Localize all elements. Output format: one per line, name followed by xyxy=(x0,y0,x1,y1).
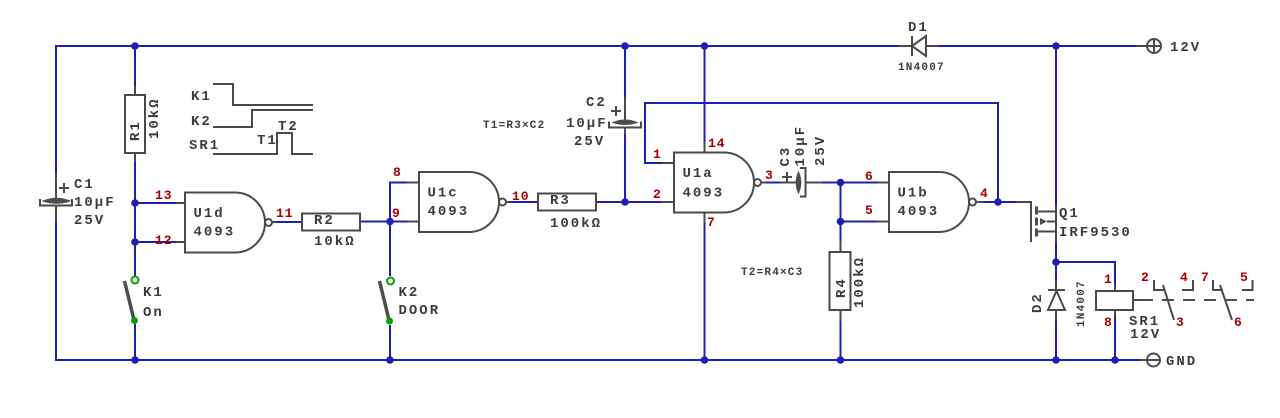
svg-text:100kΩ: 100kΩ xyxy=(550,216,602,232)
relay contact lever 7-6 xyxy=(1220,285,1232,320)
wire K1 bottom to rail xyxy=(134,324,136,360)
resistor R3 xyxy=(538,193,602,232)
transistor Q1 xyxy=(1016,202,1132,243)
power symbol 12V xyxy=(1136,39,1201,56)
wire junction to pin9 xyxy=(390,221,407,223)
svg-text:10kΩ: 10kΩ xyxy=(147,97,163,139)
svg-text:U1b: U1b xyxy=(898,186,929,202)
wire U1c output to R3 xyxy=(507,201,538,203)
svg-text:4093: 4093 xyxy=(683,186,725,202)
svg-text:4093: 4093 xyxy=(194,225,236,241)
svg-text:8: 8 xyxy=(393,165,402,180)
junction bottom rail pin7 xyxy=(701,356,709,364)
svg-text:7: 7 xyxy=(707,215,716,230)
junction top rail R1 xyxy=(131,42,139,50)
op-amp U1d nand gate xyxy=(176,193,276,253)
svg-text:100kΩ: 100kΩ xyxy=(852,256,868,308)
svg-text:1: 1 xyxy=(1104,272,1113,287)
svg-text:R3: R3 xyxy=(550,193,571,209)
svg-text:K2: K2 xyxy=(399,285,420,301)
svg-text:4093: 4093 xyxy=(428,204,470,220)
wire U1b output to Q1 gate node xyxy=(984,201,1016,203)
svg-text:25V: 25V xyxy=(74,213,105,229)
relay actuation dashed line xyxy=(1141,299,1254,301)
wire U1a pin1 feedback from U1b output xyxy=(645,103,998,202)
svg-text:R2: R2 xyxy=(314,213,335,229)
svg-text:K1: K1 xyxy=(143,285,164,301)
junction pin12 xyxy=(131,238,139,246)
svg-text:U1d: U1d xyxy=(194,206,225,222)
relay contact terminal 2 xyxy=(1154,280,1164,290)
svg-text:25V: 25V xyxy=(574,134,605,150)
junction C3 pin6 node xyxy=(837,179,845,187)
wire Q1 source to 12V rail xyxy=(1055,46,1057,205)
wire U1a pin14 power xyxy=(704,46,706,152)
wire U1a output to C3 xyxy=(765,182,796,184)
wire R1 bottom to U1d inputs and K1 xyxy=(134,162,136,276)
svg-text:T2: T2 xyxy=(278,119,299,135)
svg-text:12V: 12V xyxy=(1170,40,1201,56)
svg-text:1N4007: 1N4007 xyxy=(1076,280,1088,327)
capacitor C3 xyxy=(778,125,829,197)
svg-text:12V: 12V xyxy=(1130,327,1161,343)
svg-text:IRF9530: IRF9530 xyxy=(1059,225,1132,241)
timing diagram K1 trace xyxy=(213,84,313,105)
svg-text:1N4007: 1N4007 xyxy=(898,62,945,74)
relay contact terminal 4 xyxy=(1182,280,1193,290)
wire pin13 net xyxy=(135,202,176,204)
junction top rail C2 xyxy=(621,42,629,50)
junction U1b output feedback node xyxy=(994,198,1002,206)
wire junction down to pin5 node xyxy=(840,183,842,222)
wire C1 bottom to ground rail xyxy=(55,206,57,361)
wire top rail right segment xyxy=(926,45,1136,47)
svg-text:Q1: Q1 xyxy=(1059,206,1080,222)
wire C2 bottom to R3 net xyxy=(624,128,626,202)
svg-text:D1: D1 xyxy=(908,20,929,36)
op-amp U1c nand gate xyxy=(407,172,510,232)
ground symbol GND xyxy=(1140,354,1197,371)
wire top rail left segment xyxy=(56,45,898,47)
svg-text:K1: K1 xyxy=(191,89,212,105)
svg-text:5: 5 xyxy=(1240,270,1249,285)
wire bottom ground rail xyxy=(55,359,1140,361)
svg-text:3: 3 xyxy=(765,168,774,183)
svg-text:2: 2 xyxy=(653,187,662,202)
svg-text:U1a: U1a xyxy=(683,166,714,182)
junction pin13 xyxy=(131,199,139,207)
svg-text:5: 5 xyxy=(865,203,874,218)
wire R1 top xyxy=(134,46,136,86)
junction bottom rail R4 xyxy=(837,356,845,364)
wire pin5 net xyxy=(841,221,878,223)
svg-text:25V: 25V xyxy=(813,135,829,166)
wire pin5 node down to R4 xyxy=(840,222,842,242)
diode D2 xyxy=(1030,280,1088,327)
resistor R2 xyxy=(302,213,360,250)
wire left vertical to C1 top xyxy=(55,45,57,198)
wire Q1 drain to D2 relay node xyxy=(1055,243,1057,281)
svg-text:11: 11 xyxy=(276,206,294,221)
junction bottom rail D2 xyxy=(1052,356,1060,364)
svg-text:GND: GND xyxy=(1166,354,1197,370)
relay SR1 coil xyxy=(1096,284,1161,343)
svg-text:4: 4 xyxy=(980,186,989,201)
svg-text:9: 9 xyxy=(392,206,401,221)
svg-text:C3: C3 xyxy=(778,146,794,167)
op-amp U1a nand gate xyxy=(662,143,766,223)
wire junction up to pin8 xyxy=(390,183,407,222)
junction R3 C2 node xyxy=(621,198,629,206)
svg-text:8: 8 xyxy=(1104,315,1113,330)
wire relay node to SR1 pin1 xyxy=(1056,262,1115,284)
svg-text:R4: R4 xyxy=(834,277,850,298)
timing diagram SR1 trace xyxy=(213,133,313,154)
capacitor C2 xyxy=(566,95,641,150)
junction top rail Q1 xyxy=(1052,42,1060,50)
svg-text:C1: C1 xyxy=(74,177,95,193)
junction top rail pin14 xyxy=(701,42,709,50)
svg-text:10µF: 10µF xyxy=(74,195,116,211)
junction bottom rail SR1 xyxy=(1111,356,1119,364)
svg-text:10kΩ: 10kΩ xyxy=(314,234,356,250)
junction R2 output node xyxy=(386,218,394,226)
wire K2 bottom to rail xyxy=(389,325,391,360)
resistor R1 xyxy=(125,86,163,162)
wire U1d output to R2 xyxy=(276,221,302,223)
svg-text:6: 6 xyxy=(1234,315,1243,330)
svg-text:10µF: 10µF xyxy=(566,116,608,132)
svg-text:14: 14 xyxy=(708,136,726,151)
svg-text:10µF: 10µF xyxy=(793,125,809,167)
relay contact terminal 5 xyxy=(1242,280,1253,290)
svg-text:SR1: SR1 xyxy=(189,138,220,154)
junction bottom rail K1 xyxy=(131,356,139,364)
svg-text:7: 7 xyxy=(1201,270,1210,285)
capacitor C1 xyxy=(40,173,116,229)
wire D2 bottom to rail xyxy=(1055,321,1057,360)
svg-text:D2: D2 xyxy=(1030,292,1046,313)
wire pin12 net xyxy=(135,241,176,243)
svg-text:4: 4 xyxy=(1180,270,1189,285)
timing diagram K2 trace xyxy=(213,110,313,127)
junction Q1 drain relay node xyxy=(1052,258,1060,266)
svg-text:C2: C2 xyxy=(586,95,607,111)
wire C3 to U1b pin6 junction xyxy=(806,182,877,184)
svg-text:1: 1 xyxy=(653,147,662,162)
wire junction down to K2 xyxy=(389,222,391,277)
switch K1 xyxy=(125,277,164,325)
svg-text:R1: R1 xyxy=(128,120,144,141)
resistor R4 xyxy=(830,241,869,321)
diode D1 xyxy=(898,20,945,74)
svg-text:12: 12 xyxy=(155,233,173,248)
svg-text:DOOR: DOOR xyxy=(399,303,441,319)
svg-text:On: On xyxy=(143,305,164,321)
switch K2 xyxy=(380,278,441,325)
wire C2 top to rail xyxy=(624,46,626,120)
svg-text:3: 3 xyxy=(1176,315,1185,330)
relay contact lever 2-3 xyxy=(1163,285,1174,320)
svg-text:T1: T1 xyxy=(257,133,278,149)
relay contact terminal 7 xyxy=(1213,280,1223,290)
wire SR1 pin8 to rail xyxy=(1114,317,1116,360)
junction pin5 R4 node xyxy=(837,218,845,226)
op-amp U1b nand gate xyxy=(877,172,984,232)
wire R3 to U1a pin2 with C2 tap xyxy=(596,201,662,203)
svg-text:13: 13 xyxy=(155,188,173,203)
svg-text:10: 10 xyxy=(512,189,530,204)
svg-text:4093: 4093 xyxy=(898,204,940,220)
svg-text:K2: K2 xyxy=(191,114,212,130)
wire R2 to junction node xyxy=(360,221,390,223)
svg-text:2: 2 xyxy=(1141,270,1150,285)
svg-text:T2=R4×C3: T2=R4×C3 xyxy=(741,267,803,279)
svg-text:6: 6 xyxy=(865,169,874,184)
svg-text:U1c: U1c xyxy=(428,186,459,202)
wire U1a pin7 ground xyxy=(704,213,706,360)
svg-text:T1=R3×C2: T1=R3×C2 xyxy=(483,120,545,132)
junction bottom rail K2 xyxy=(386,356,394,364)
wire R4 bottom to rail xyxy=(840,321,842,360)
